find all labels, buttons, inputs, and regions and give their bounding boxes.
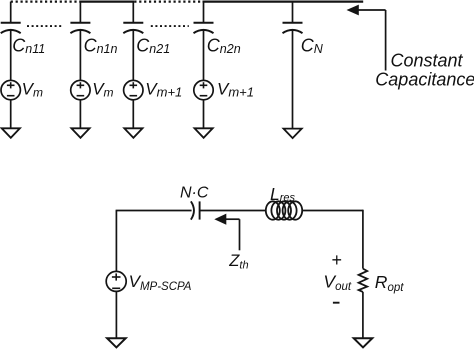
capacitor C_n1n	[70, 23, 90, 33]
svg-text:Capacitance: Capacitance	[375, 69, 474, 89]
wire bottom circuit top horizontal left	[116, 210, 192, 212]
source V_m+1 (column 4)	[194, 80, 213, 99]
wire rail to capacitor C_N	[292, 2, 294, 23]
svg-text:Vm: Vm	[92, 80, 113, 100]
arrow annotation pointing to constant capacitance rail	[347, 5, 359, 16]
wire rail to capacitor C_n11	[10, 2, 12, 23]
svg-text:Lres: Lres	[270, 184, 296, 204]
wire rail to capacitor C_n1n	[79, 2, 81, 23]
capacitor C_n21	[123, 23, 143, 33]
source V_MP-SCPA	[106, 271, 126, 291]
wire source Vm1 to ground	[10, 100, 12, 129]
wire resistor to ground	[362, 292, 364, 338]
resistor R_opt	[359, 269, 368, 292]
svg-text:+: +	[331, 250, 342, 270]
svg-text:Cn1n: Cn1n	[84, 35, 118, 56]
wire top rail dotted segment between C_n11 and C_n1n	[11, 1, 81, 3]
svg-text:Vm+1: Vm+1	[217, 80, 254, 100]
inductor L_res	[266, 201, 302, 219]
wire top rail solid segment from C_n2n to right end	[203, 1, 364, 3]
svg-text:Vm: Vm	[22, 80, 43, 100]
ground (column 5)	[284, 129, 302, 139]
capacitor N·C	[191, 201, 200, 219]
source V_m+1 (column 3)	[124, 80, 143, 99]
wire bottom circuit left vertical	[115, 211, 117, 272]
ground (column 3)	[124, 128, 142, 138]
svg-text:Cn21: Cn21	[136, 35, 170, 56]
wire C_n2n to source Vm+1b	[203, 30, 205, 80]
svg-text:Vm+1: Vm+1	[145, 80, 182, 100]
wire right vertical to resistor	[362, 210, 364, 269]
svg-text:VMP-SCPA: VMP-SCPA	[129, 272, 192, 293]
wire inductor to right vertical	[302, 210, 363, 212]
wire N·C to inductor	[200, 210, 266, 212]
wire rail to capacitor C_n21	[132, 2, 134, 23]
wire top rail dotted segment between C_n21 and C_n2n	[134, 1, 203, 3]
wire V_MP-SCPA to ground	[115, 291, 117, 338]
wire C_n11 to source Vm1	[10, 30, 12, 80]
svg-text:N·C: N·C	[180, 185, 209, 202]
wire source Vm+1 to ground	[132, 100, 134, 129]
wire source Vm+1b to ground	[203, 100, 205, 129]
capacitor C_N	[283, 23, 303, 33]
svg-text:Vout: Vout	[323, 271, 351, 293]
wire dotted continuation between C_n21 and C_n2n	[151, 25, 189, 27]
arrow Z_th	[214, 214, 226, 225]
wire C_n21 to source Vm+1	[132, 30, 134, 80]
ground (column 1)	[2, 128, 20, 138]
svg-text:Zth: Zth	[228, 252, 248, 272]
wire dotted continuation between C_n11 and C_n1n	[27, 25, 64, 27]
wire source Vm2 to ground	[79, 100, 81, 129]
svg-text:Cn11: Cn11	[12, 35, 45, 56]
svg-text:CN: CN	[301, 35, 324, 56]
svg-text:Constant: Constant	[391, 50, 464, 70]
ground (column 2)	[71, 128, 89, 138]
ground (right, under R_opt)	[354, 338, 373, 347]
ground (column 4)	[195, 128, 213, 138]
wire rail to capacitor C_n2n	[203, 2, 205, 23]
source V_m (column 2)	[71, 80, 90, 99]
svg-text:Cn2n: Cn2n	[207, 35, 241, 56]
ground (left, under V_MP-SCPA)	[107, 338, 126, 347]
label minus sign of V_out	[333, 302, 340, 304]
wire top rail solid segment between C_n1n and C_n21	[79, 1, 134, 3]
capacitor C_n2n	[194, 23, 214, 33]
wire C_n1n to source Vm2	[79, 30, 81, 80]
wire C_N to ground	[292, 30, 294, 128]
capacitor C_n11	[1, 23, 21, 33]
svg-text:Ropt: Ropt	[375, 272, 404, 294]
source V_m (column 1)	[1, 80, 20, 99]
